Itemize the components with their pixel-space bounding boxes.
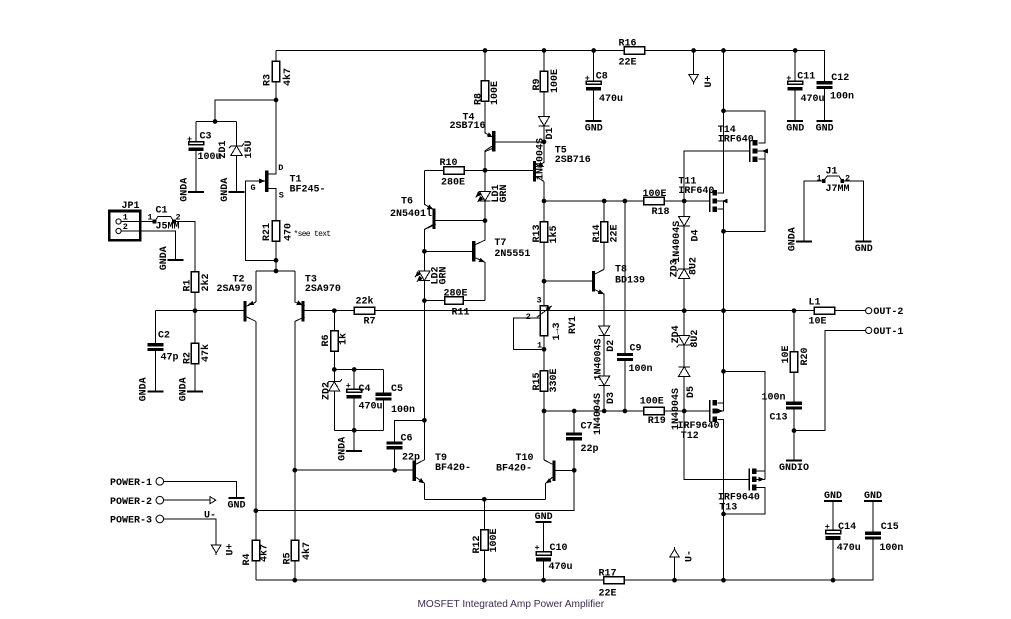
resistor R13 1k5 [532,222,560,244]
capacitor C15 100n [865,522,903,554]
svg-text:R13: R13 [532,224,543,242]
svg-text:R8: R8 [473,93,484,105]
ground GNDA under C3 [179,178,204,202]
wire C7 to T10 base [573,439,575,471]
resistor R16 22E [619,39,645,69]
wire T3 collector to node [294,321,296,470]
wire ZD1 leads [236,122,238,146]
wire LD2 top lead [423,251,425,271]
wire RV1 wiper link [514,318,544,349]
svg-text:U-: U- [684,550,695,562]
svg-text:T13: T13 [719,502,737,513]
svg-text:+: + [535,543,540,553]
wire C14 GND stem [832,502,834,531]
svg-text:22E: 22E [609,224,620,242]
wire C4 bottom lead [353,398,355,430]
svg-text:RV1: RV1 [568,316,579,334]
transistor T10 BF420 NPN [496,453,556,485]
ground GND above C14 [824,491,842,502]
svg-text:100E: 100E [640,397,664,408]
ground GND at POWER-1 [228,497,246,512]
transistor T6 2N5401 PNP [390,197,436,230]
svg-text:100n: 100n [629,364,653,375]
ground GNDA under C2 [139,377,164,401]
wire T9 emitter [416,477,425,499]
svg-text:JP1: JP1 [122,201,140,212]
wire V+ top rail [276,51,825,82]
svg-text:GRN: GRN [499,184,510,202]
wire C3 leads [195,122,197,142]
resistor R14 22E [592,222,621,243]
wire T13 body diode link [764,471,766,479]
svg-text:100n: 100n [879,543,903,554]
transistor T5 2SB716 PNP [533,145,591,181]
svg-text:ZD2: ZD2 [321,382,332,400]
svg-text:C7: C7 [581,421,593,432]
wire T2 emitter riser [255,271,257,302]
wire T5 emitter [536,142,544,167]
svg-text:GNDIO: GNDIO [779,463,809,474]
capacitor C6 22p [387,434,420,464]
svg-text:ZD3: ZD3 [669,259,680,277]
wire T2 base row [155,310,243,312]
wire C11 to GND [794,91,796,120]
wire mid rail to ZD4 [683,311,685,336]
svg-text:R3: R3 [262,74,273,86]
svg-text:280E: 280E [441,178,465,189]
svg-text:U-: U- [204,510,216,521]
wire T1 source to R21 [268,189,276,221]
svg-text:280E: 280E [444,289,468,300]
wire C6 tap [395,420,425,441]
svg-text:2SB716: 2SB716 [450,121,486,132]
arrow at POWER-2 [210,497,216,504]
wire T1 gate to node [246,181,276,260]
svg-text:15U: 15U [244,140,255,158]
svg-text:2N5551: 2N5551 [494,249,530,260]
wire LD2 to node [423,281,425,301]
svg-text:GNDA: GNDA [178,377,189,401]
svg-text:1k: 1k [337,333,349,345]
wire T5 base lead [485,169,533,171]
wire R5 to bottom rail [294,561,296,581]
wire T13 gate branch [684,411,749,479]
wire T9/T10 emitter bus [425,498,546,500]
wire R8 to T4 emitter [485,101,492,136]
wire C8 top lead [593,51,595,82]
wire V- arrow stem [674,557,676,580]
diode D3 1N4004S [593,376,617,435]
wire T8 base lead [544,280,592,282]
wire R20 to C13 [793,372,795,402]
diode D1 1N4004S [535,116,556,180]
capacitor C11 470u [786,72,824,106]
wire lower gate row [544,410,709,412]
wire T14 body diode link [764,151,766,159]
ground GNDA under R2 [178,377,203,401]
resistor R8 100E [473,81,501,105]
svg-text:1→3: 1→3 [552,322,563,340]
svg-text:1k5: 1k5 [548,225,560,243]
resistor R18 100E [643,189,670,218]
resistor R15 330E [532,368,560,392]
svg-text:R15: R15 [532,372,543,390]
wire R15 bottom to gate node row [543,391,545,411]
svg-text:C14: C14 [838,522,856,533]
wire diff pair emitter bus [256,270,295,272]
svg-text:100E: 100E [489,528,500,552]
svg-text:MOSFET Integrated Amp Power Am: MOSFET Integrated Amp Power Amplifier [418,599,605,610]
ground GNDA at JP1 pin2 [159,246,184,270]
svg-text:GND: GND [816,123,834,134]
svg-text:GNDA: GNDA [338,437,349,461]
svg-text:GND: GND [585,123,603,134]
transistor T9 BF420 NPN [413,453,471,485]
wire T10 base lead [556,469,575,471]
svg-text:+: + [585,73,590,83]
svg-text:1N4004S: 1N4004S [594,338,605,380]
svg-text:R9: R9 [532,78,543,90]
svg-text:ZD1: ZD1 [218,140,229,158]
diode D2 1N4004S [594,326,617,381]
wire LD1 top lead [484,170,486,191]
wire R5 drop [294,470,296,540]
svg-text:GND: GND [855,244,873,255]
svg-text:47k: 47k [200,344,212,362]
wire R2 drop [194,311,196,344]
supply arrow V- at bottom rail [670,547,696,562]
wire ZD2 leads [333,370,335,431]
wire R12 bottom lead [483,550,485,580]
wire ZD3 to mid rail [683,279,685,311]
svg-text:R5: R5 [282,552,293,564]
wire R21 bottom to tail node [275,241,277,271]
svg-text:100E: 100E [490,81,501,105]
wire C4 node to GNDA [353,430,355,450]
wire T8 collector [595,242,604,274]
svg-text:R16: R16 [619,39,637,50]
svg-text:470u: 470u [549,562,573,573]
svg-text:4k7: 4k7 [282,68,294,86]
capacitor C9 100n [617,343,653,375]
svg-text:100n: 100n [762,392,786,403]
wire junction dots [193,48,836,582]
wire R3 bottom to T1 drain [268,82,276,175]
wire R9 to D1 [543,92,545,117]
transistor T3 2SA970 PNP [295,275,341,322]
resistor R17 22E [599,568,625,599]
wire R10 row [424,169,485,171]
capacitor C7 22p [566,421,598,455]
MOSFET T12 IRF9640 [678,400,724,442]
wire POWER-2 lead [164,499,211,501]
wire T6 collector [424,225,432,251]
wire V+ column [717,51,723,193]
wire T13 drain branch [724,488,765,514]
wire D4 top lead [683,201,685,217]
resistor R11 280E [444,289,470,319]
svg-text:100n: 100n [391,405,415,416]
wire C15 GND stem [872,502,874,532]
wire C3 to GNDA [195,151,197,191]
wire LD2 node to T9 collector [423,301,425,460]
wire R1 bottom to base node [194,292,196,311]
svg-text:BF420-: BF420- [435,463,471,474]
wire T13 source branch [724,371,765,471]
ground GNDIO under C13 [779,460,809,475]
wire R6 drop [333,311,335,331]
svg-text:1: 1 [148,213,153,223]
svg-text:8U2: 8U2 [689,257,700,275]
wire OUT-2 lead [835,310,866,312]
wire LD1 to node [484,201,486,221]
svg-text:POWER-2: POWER-2 [110,497,152,508]
svg-text:R18: R18 [652,207,670,218]
svg-text:U+: U+ [704,75,715,87]
svg-text:G: G [251,183,256,193]
wire C10 GND stem [543,523,545,552]
svg-text:BF420-: BF420- [496,464,532,475]
resistor R10 280E [440,158,466,189]
svg-text:POWER-1: POWER-1 [110,478,152,489]
wire mid rail to output [305,310,866,312]
svg-text:C10: C10 [550,543,568,554]
svg-text:D3: D3 [606,392,617,404]
terminal OUT-1 [866,327,904,338]
wire T10 collector [544,411,552,464]
wire D4 to ZD3 [683,226,685,269]
resistor R12 100E [472,528,500,553]
svg-text:J1: J1 [826,166,838,177]
MOSFET T14 IRF640 [718,125,768,162]
wire OUT-1 to C13 node [794,330,866,430]
zener diode ZD2 [321,379,342,400]
svg-text:470u: 470u [837,543,861,554]
svg-text:R21: R21 [262,223,273,241]
capacitor C14 470u [825,522,861,554]
svg-text:C5: C5 [391,384,403,395]
svg-text:D: D [278,163,283,173]
wire VAS upper gate row [544,200,709,202]
svg-text:1N4004S: 1N4004S [672,221,683,263]
transistor T7 2N5551 NPN [472,238,530,265]
wire C2 to GNDA [154,351,156,390]
svg-text:GNDA: GNDA [220,178,231,202]
svg-text:BD139: BD139 [615,275,645,286]
svg-text:+: + [187,134,192,144]
wire C2 drop [154,311,156,344]
svg-text:+: + [786,73,791,83]
wire V+ arrow stem [693,51,695,75]
svg-text:*see text: *see text [294,230,331,239]
ground GND under C11 [786,120,804,135]
wire T3 emitter riser [294,271,296,302]
resistor R19 100E [640,397,666,427]
wire T11 source to output column [717,209,723,311]
svg-text:C2: C2 [158,331,170,342]
svg-text:10E: 10E [781,345,792,363]
svg-text:ZD4: ZD4 [671,325,682,343]
wire C9 bottom lead [624,361,626,411]
wire T10 base feed [256,470,574,510]
svg-text:R4: R4 [242,553,253,565]
resistor R6 1k [321,331,350,352]
supply arrow V+ at POWER-3 [212,543,237,555]
svg-text:10E: 10E [809,317,827,328]
svg-text:POWER-3: POWER-3 [110,516,152,527]
resistor R4 4k7 [242,540,271,566]
svg-text:C1: C1 [156,206,168,217]
wire T2 collector to R4 [255,321,257,540]
svg-text:22p: 22p [581,444,599,455]
MOSFET T11 IRF640 [678,176,727,212]
wire C9 top lead [624,201,626,353]
wire T12 drain to V- rail [717,419,723,580]
zener diode ZD4 8V2 [671,325,701,347]
wire C13 bottom lead [793,409,795,431]
svg-text:D2: D2 [606,340,617,352]
wire D3 to gate node [603,385,605,411]
transistor T4 2SB716 PNP [450,113,496,152]
svg-text:C6: C6 [401,434,413,445]
svg-text:R11: R11 [452,308,470,319]
svg-text:C13: C13 [770,413,788,424]
svg-text:IRF640: IRF640 [678,186,714,197]
svg-text:100n: 100n [830,92,854,103]
capacitor C5 100n [375,384,415,416]
wire reference node row [334,369,383,371]
ground GNDA under C4 node [338,437,363,461]
capacitor C10 470u [535,543,573,573]
wire R13 bottom to T8 base node [543,242,545,306]
wire T11 body diode link [723,201,725,209]
ground GND at J1 pin2 [855,240,873,255]
resistor R3 4k7 [262,61,294,86]
ground GND under C12 [816,120,834,135]
svg-text:R17: R17 [599,568,617,579]
wire POWER-1 to GND [164,481,237,497]
svg-text:GNDA: GNDA [159,246,170,270]
resistor R5 4k7 [282,540,313,565]
wire J1 pin1 to GNDA [804,181,824,240]
svg-text:R2: R2 [182,352,193,364]
wire C7 top lead [573,411,575,432]
LED LD1 GRN [474,184,510,203]
capacitor C12 100n [817,73,854,103]
wire C8 to GND [593,91,595,120]
svg-text:R19: R19 [648,416,666,427]
svg-text:1: 1 [123,213,128,223]
diode D5 1N4004S [671,367,697,430]
wire C12 bottom lead [824,89,826,120]
wire T7 base lead [424,250,472,252]
resistor R2 47k [182,343,212,364]
wire C11 top lead [794,51,796,82]
wire D1 to T4/T5 node [543,126,545,142]
svg-text:GND: GND [786,123,804,134]
svg-text:2: 2 [526,312,531,322]
wire C3/ZD1 top node [196,121,237,123]
svg-text:470u: 470u [801,94,825,105]
wire C6 bottom lead [394,449,396,470]
wire R8 top [484,51,486,81]
svg-text:R14: R14 [592,224,603,242]
wire RV1 pin1 to R15 [543,336,545,371]
wire R3 node to ZD1/C3 node [215,100,276,122]
wire T7 emitter [475,258,485,301]
svg-text:L1: L1 [809,297,821,308]
wire T8 emitter to D2 [595,290,604,326]
ground GNDA under ZD1 [220,178,245,202]
svg-text:C11: C11 [797,72,815,83]
capacitor C4 470u [346,381,383,413]
svg-text:1N4004S: 1N4004S [593,393,604,435]
wire C10 bottom lead [543,561,545,580]
transistor T2 2SA970 PNP [217,275,256,322]
wire R14 top [603,201,605,222]
svg-text:8U2: 8U2 [690,330,701,348]
svg-text:+: + [346,381,351,391]
svg-text:R10: R10 [440,158,458,169]
wire T5 collector lead [536,176,544,181]
trimmer RV1 1->3 [526,296,579,351]
zener diode ZD3 8V2 [669,257,699,279]
svg-text:1N4004S: 1N4004S [535,138,546,180]
wire C14 bottom lead [832,540,834,581]
wire T4 collector [485,146,492,170]
svg-text:R7: R7 [364,317,376,328]
svg-text:T6: T6 [401,197,413,208]
wire V- bottom rail [256,542,873,580]
svg-text:330E: 330E [549,368,560,392]
ground GND above C15 [864,491,882,502]
svg-text:22E: 22E [619,58,637,69]
svg-text:U+: U+ [225,543,236,555]
wire C13 node to GNDIO [793,431,795,460]
wire R2 to GNDA [194,364,196,391]
resistor R21 470 [262,221,331,242]
svg-text:T12: T12 [681,431,699,442]
svg-text:100E: 100E [643,189,667,200]
svg-text:22k: 22k [356,296,374,308]
svg-text:470u: 470u [359,402,383,413]
svg-text:470u: 470u [599,94,623,105]
capacitor C3 100u [187,132,222,164]
wire D5 to gate node [683,376,685,411]
wire T7 collector [475,221,485,245]
transistor T1 BF245 JFET [251,163,326,201]
wire ZD1 to GNDA [236,155,238,191]
svg-text:C3: C3 [200,132,212,143]
caption title [418,599,605,610]
wire T9 base row [295,469,413,471]
wire T10 emitter [546,477,553,499]
svg-text:IRF640: IRF640 [718,134,754,145]
wire C15 bottom lead [872,540,874,542]
wire R4 to bottom rail [255,561,257,581]
wire R6 to reference node [333,351,335,369]
wire R12 top lead [483,499,485,529]
resistor R9 100E [532,69,561,93]
svg-text:BF245-: BF245- [290,184,326,195]
wire JP1 pin2 to GNDA [121,231,176,259]
supply arrow V+ top [689,75,715,88]
wire R10 left drop [424,170,432,209]
wire R11 row [424,300,485,302]
ground GND under C8 [585,120,603,135]
wire JP1 pin1 to C1 [121,221,155,223]
svg-text:4k7: 4k7 [301,542,313,560]
